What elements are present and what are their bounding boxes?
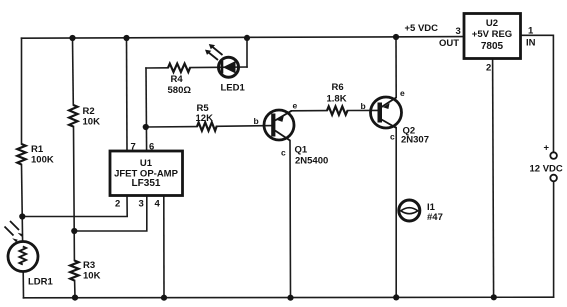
wire U1 pin 7 to top rail: [126, 38, 129, 151]
svg-text:2: 2: [486, 63, 491, 74]
transistor Q2: [371, 97, 402, 128]
wire Q1 collector to bottom rail: [289, 141, 292, 298]
svg-text:Q1: Q1: [295, 145, 308, 156]
wire Q2 collector to bottom rail (through lamp): [395, 128, 397, 298]
resistor R4: [168, 64, 190, 72]
wire Q2 emitter to top rail: [395, 37, 397, 98]
junction top rail / Q2 emitter: [393, 34, 399, 40]
wire lower terminal to bottom rail: [553, 181, 555, 297]
wire U2 pin 2 to bottom rail: [493, 59, 494, 298]
wire R5 left: [146, 126, 197, 128]
svg-text:3: 3: [456, 26, 461, 37]
svg-text:10K: 10K: [83, 117, 101, 128]
junction left line / U1 pin 2: [19, 213, 25, 219]
junction bottom rail / R3: [72, 295, 78, 301]
svg-text:7805: 7805: [481, 41, 504, 52]
op-amp U1: [110, 151, 183, 196]
wire LED1 through and right stub: [219, 66, 247, 68]
wire R4 left: [146, 67, 168, 69]
wire U1 pin 6 vertical (R4 corner through R5 junction): [145, 68, 148, 151]
12 VDC supply terminals: [530, 143, 563, 182]
junction bottom rail / Q1 collector: [287, 295, 293, 301]
regulator U2: [464, 14, 521, 59]
junction top rail / U1 pin 7: [123, 35, 129, 41]
svg-text:2N307: 2N307: [401, 135, 429, 146]
svg-text:R3: R3: [83, 260, 95, 271]
svg-text:12K: 12K: [196, 113, 214, 124]
resistor R1: [17, 144, 25, 164]
resistor R5: [197, 122, 217, 130]
LDR1 arrows: [5, 227, 14, 236]
wire U1 pin 4 to bottom rail: [163, 196, 165, 298]
svg-text:2: 2: [115, 199, 120, 210]
wire LED1 to top rail: [246, 38, 248, 67]
resistor R6: [327, 106, 347, 114]
junction top rail / LED1: [244, 35, 250, 41]
svg-text:LDR1: LDR1: [28, 277, 54, 288]
wire R6 right to Q2 base: [348, 109, 380, 111]
wire Q1 emitter to R6: [292, 110, 328, 112]
svg-text:b: b: [254, 116, 259, 126]
svg-text:+5 VDC: +5 VDC: [405, 23, 439, 34]
resistor R2: [69, 105, 77, 126]
svg-text:3: 3: [139, 199, 144, 210]
wire LDR1 to bottom rail: [22, 271, 24, 297]
svg-text:e: e: [400, 88, 405, 98]
svg-text:2N5400: 2N5400: [295, 156, 328, 167]
LED1: [205, 44, 239, 77]
svg-text:1.8K: 1.8K: [327, 94, 347, 105]
svg-text:c: c: [281, 148, 286, 158]
wire U1 pin 3 down and left: [74, 196, 147, 232]
svg-text:7: 7: [131, 142, 136, 153]
wire R2/R3 vertical upper: [72, 38, 75, 105]
svg-text:100K: 100K: [31, 155, 54, 166]
svg-text:c: c: [390, 132, 395, 142]
wire bottom rail: [24, 296, 554, 299]
wire top rail: [22, 37, 465, 39]
LDR1 photoresistor: [5, 221, 39, 272]
wire U2 pin 1 to + terminal: [521, 35, 554, 152]
svg-text:580Ω: 580Ω: [168, 85, 192, 96]
transistor Q1: [264, 110, 294, 141]
svg-text:U2: U2: [486, 18, 498, 29]
svg-text:+: +: [544, 143, 550, 154]
wire left vertical (top rail to R1): [21, 38, 23, 144]
wire U1 pin 2 down and left: [22, 196, 127, 217]
svg-text:R6: R6: [332, 82, 344, 93]
svg-text:U1: U1: [140, 158, 153, 169]
svg-text:IN: IN: [526, 38, 536, 49]
wire R1 to LDR1: [22, 165, 23, 242]
svg-text:R1: R1: [31, 144, 44, 155]
wire R3 to bottom rail: [74, 281, 76, 298]
junction bottom rail / U1 pin 4: [161, 295, 167, 301]
lamp I1: [399, 200, 420, 221]
wire R5 right to Q1 base: [217, 125, 274, 128]
svg-text:4: 4: [155, 199, 161, 210]
svg-text:+5V REG: +5V REG: [472, 29, 512, 40]
svg-text:LF351: LF351: [132, 178, 161, 189]
svg-text:R2: R2: [83, 106, 95, 117]
wire R4 right to LED1: [190, 66, 219, 68]
svg-text:6: 6: [149, 142, 154, 153]
junction R5 / U1 pin 6: [143, 124, 149, 130]
junction R2-R3 / U1 pin 3: [71, 228, 77, 234]
junction top rail / R2: [69, 35, 75, 41]
svg-text:OUT: OUT: [439, 38, 459, 49]
svg-text:1: 1: [528, 26, 534, 37]
svg-text:12 VDC: 12 VDC: [530, 164, 563, 175]
svg-text:e: e: [293, 101, 298, 111]
svg-text:LED1: LED1: [221, 83, 246, 94]
svg-text:10K: 10K: [83, 271, 101, 282]
junction bottom rail / U2 pin 2: [491, 294, 497, 300]
junction bottom rail / lamp I1: [393, 294, 399, 300]
resistor R3: [70, 261, 78, 281]
LED1 emission arrows: [212, 47, 223, 56]
wire R2 to pin3 junction to R3: [73, 127, 76, 261]
svg-text:R4: R4: [171, 74, 184, 85]
svg-text:#47: #47: [427, 212, 443, 223]
svg-text:b: b: [361, 101, 366, 111]
